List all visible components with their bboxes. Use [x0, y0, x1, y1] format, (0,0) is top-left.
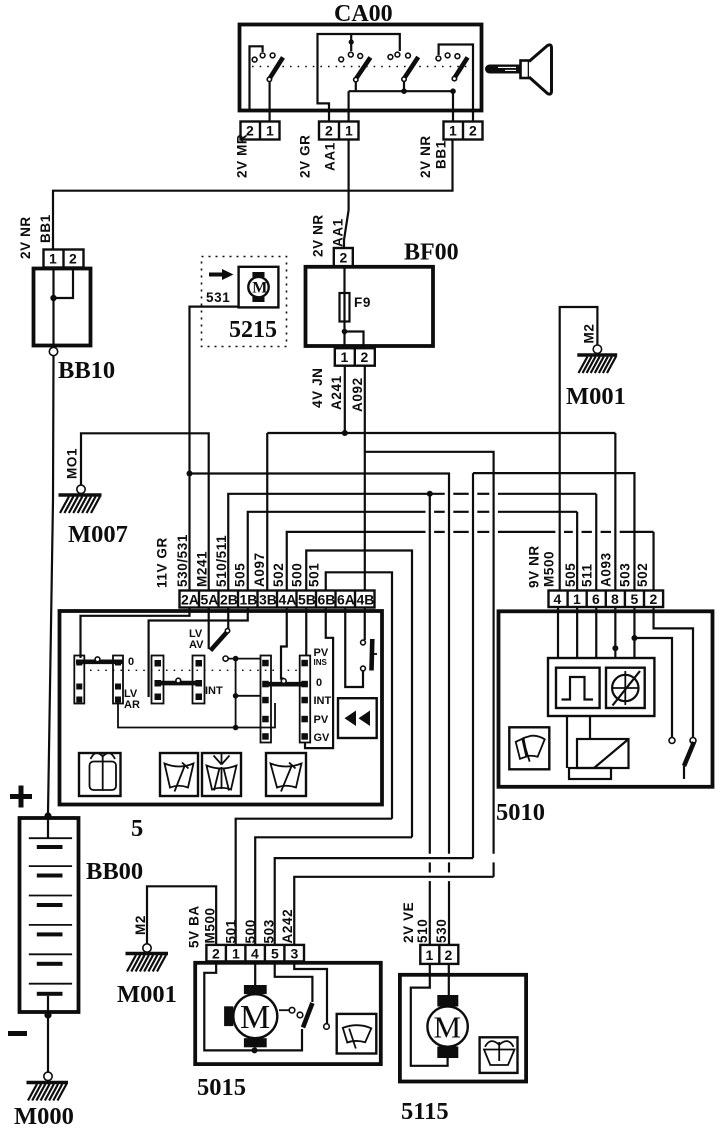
svg-text:531: 531: [206, 290, 230, 305]
connector block A (2|1): [241, 122, 280, 140]
5015 motor symbol: [224, 985, 277, 1050]
motor 5215 symbol: [248, 272, 268, 302]
5010 pin1 wire: [576, 607, 578, 658]
ground M001 (bottom): [126, 944, 169, 972]
BF00 internal wire to pin 2: [345, 332, 364, 349]
box5 wire pin 6B loop around strip: [305, 608, 333, 749]
svg-text:M2: M2: [582, 324, 597, 344]
5015 connector row: [206, 945, 304, 962]
+12V bus A241/A097/A093: [267, 432, 615, 434]
CA00 switch S4 lever: [454, 57, 467, 78]
5015 pin2 ground loop: [204, 961, 302, 1050]
svg-text:A241: A241: [329, 375, 344, 410]
BF00 bottom connector (1|2): [335, 348, 375, 366]
svg-text:M241: M241: [195, 551, 210, 587]
svg-text:A092: A092: [350, 377, 365, 412]
CA00 switch S4 contacts: [436, 56, 441, 61]
wire 500 lower run to 5015 pin 4: [255, 837, 412, 945]
svg-text:M: M: [252, 280, 267, 297]
svg-text:2V VE: 2V VE: [401, 902, 416, 943]
wire 502: [287, 532, 426, 591]
svg-text:BB1: BB1: [38, 214, 53, 243]
battery positive symbol: [10, 786, 32, 808]
svg-text:2: 2: [325, 123, 333, 139]
box5 wire from pin 2A: [81, 608, 190, 659]
svg-text:2: 2: [340, 250, 348, 266]
svg-text:511: 511: [580, 563, 595, 587]
svg-text:501: 501: [307, 563, 322, 587]
svg-text:1: 1: [449, 123, 457, 139]
5010 pulse symbol box: [556, 668, 600, 708]
battery negative symbol: [8, 1031, 27, 1036]
svg-text:M000: M000: [14, 1103, 74, 1130]
svg-text:2V NR: 2V NR: [18, 216, 33, 259]
svg-text:5010: 5010: [496, 799, 545, 826]
wire +12V to box5 pin 4B: [364, 433, 366, 591]
svg-text:503: 503: [262, 919, 277, 943]
5115 pin2 wire to motor top: [448, 964, 450, 995]
svg-text:1: 1: [266, 123, 274, 139]
5010 pin6 wire: [595, 607, 597, 658]
wire 531 from 5215 down: [190, 307, 239, 474]
battery internal bottom lead: [47, 996, 49, 1012]
wiper stalk switch box 5: [60, 611, 383, 805]
svg-text:AA1: AA1: [323, 142, 338, 171]
svg-text:M007: M007: [68, 521, 128, 548]
svg-text:2A: 2A: [181, 592, 199, 608]
wire M500 from ground M001 (bottom) to 5015 pin 2: [147, 886, 216, 945]
svg-text:500: 500: [290, 563, 305, 587]
5015 park switch contacts: [289, 1007, 295, 1013]
wire BB1 from CA00 pin C1 to BB10: [53, 140, 453, 250]
svg-text:5: 5: [131, 815, 143, 842]
box5 bottom return line: [118, 703, 275, 728]
battery BB00 body: [20, 818, 79, 1012]
svg-text:1: 1: [426, 947, 434, 963]
svg-text:1B: 1B: [240, 592, 258, 608]
wire M241 from ground M007 to box5 pin 5A: [81, 433, 209, 590]
CA00 switch S3 tilted contact pair: [388, 55, 393, 60]
box5 left bridge bar position 0: [76, 659, 123, 664]
motor 5215 box: [239, 267, 279, 308]
svg-text:3B: 3B: [259, 592, 277, 608]
svg-text:5: 5: [271, 946, 279, 962]
wire 500 upper run: [306, 551, 412, 838]
CA00 switch S3 lever: [404, 57, 418, 79]
svg-text:BB1: BB1: [434, 140, 449, 169]
ground M007: [59, 485, 102, 513]
svg-text:501: 501: [224, 919, 239, 943]
svg-text:INS: INS: [314, 658, 328, 667]
5015 wiper icon box: [337, 1014, 377, 1054]
svg-text:8: 8: [611, 591, 619, 607]
svg-text:0: 0: [316, 677, 322, 689]
wire 501 lower run to 5015 pin 1: [236, 819, 392, 945]
battery internal top lead: [47, 818, 49, 838]
box5 common distribution line: [228, 656, 260, 731]
svg-text:INT: INT: [205, 685, 223, 697]
ground M000: [27, 1072, 69, 1100]
5015 pin3 wire A242 to park contact: [294, 961, 327, 1023]
svg-text:5A: 5A: [201, 592, 219, 608]
5010 relay symbol: [569, 739, 629, 779]
svg-text:5V BA: 5V BA: [187, 905, 202, 948]
node 510: [427, 491, 433, 497]
5010 switch contacts: [669, 738, 675, 744]
svg-text:4V JN: 4V JN: [310, 367, 325, 408]
CA00 switch S1 lever: [269, 57, 283, 78]
BF00 top connector (2): [334, 248, 353, 266]
5010 module to relay wires: [566, 716, 568, 768]
svg-text:4B: 4B: [357, 592, 375, 608]
wire A097 to box5 pin 3B: [266, 433, 268, 591]
svg-text:M001: M001: [566, 383, 626, 410]
box5 wire pin 2B to lever contact: [227, 608, 229, 629]
svg-text:2: 2: [212, 946, 220, 962]
svg-text:502: 502: [271, 563, 286, 587]
fast speed icon box: [338, 698, 377, 738]
5010 motor control symbol box: [606, 668, 645, 708]
front wiper motor 5015 body: [195, 963, 381, 1064]
5115 motor symbol: [427, 995, 467, 1058]
ignition switch CA00 body: [240, 25, 482, 111]
svg-text:AR: AR: [124, 699, 140, 711]
CA00 switch S4 feed loop from pin C2: [439, 45, 473, 122]
svg-text:2: 2: [69, 251, 77, 267]
box5 wire from pin 1B into middle group: [149, 608, 248, 698]
svg-text:A097: A097: [252, 552, 267, 587]
BB10 internal wire pin1: [52, 268, 54, 347]
svg-text:2: 2: [361, 349, 369, 365]
svg-text:2V NR: 2V NR: [311, 214, 326, 257]
svg-text:M: M: [240, 999, 270, 1036]
LV AV lever: [211, 632, 228, 651]
wire 530 branch to 5115 pin 2: [190, 474, 450, 854]
box5 washer switch bar: [369, 639, 374, 671]
svg-text:GV: GV: [314, 732, 331, 744]
node A241 on bus: [342, 430, 348, 436]
svg-text:2V GR: 2V GR: [298, 134, 313, 178]
CA00 switch S1 contacts: [252, 57, 257, 62]
svg-text:2V MR: 2V MR: [235, 134, 250, 178]
CA00 switch S1 output wire (pin 1): [269, 81, 271, 121]
icon washer windshield: [79, 753, 121, 796]
box5 connector row: [180, 591, 375, 608]
svg-text:4: 4: [554, 591, 562, 607]
svg-text:530/531: 530/531: [175, 534, 190, 587]
box5 washer switch loop from pin 6A: [345, 608, 363, 688]
icon wiper 2: [266, 753, 306, 796]
wire 503 upper run: [473, 473, 634, 590]
CA00 switch S2 feed loop from pin B2: [318, 34, 400, 121]
BB10 connector (1|2): [44, 250, 84, 268]
CA00 switch S1 feed wire (pin 2): [250, 46, 263, 110]
BF00 internal node: [342, 329, 348, 335]
BB10 internal wire pin2: [54, 268, 74, 299]
CA00 switch S4 output wire (pin C1): [452, 91, 454, 121]
svg-text:5215: 5215: [229, 317, 277, 343]
box5 wire pin 4B to washer switch: [364, 608, 366, 641]
CA00 switch S2 lever: [356, 57, 371, 79]
wire 503 lower run to 5015 pin 5: [275, 858, 473, 945]
svg-text:BB00: BB00: [86, 858, 143, 885]
box5 middle bridge bar INT: [157, 681, 200, 686]
svg-text:PV: PV: [314, 714, 329, 726]
wire 530/531 to box5 pin 2A: [188, 474, 190, 591]
fuse F9: [340, 266, 350, 348]
svg-text:2: 2: [469, 123, 477, 139]
5115 washer icon box: [480, 1037, 518, 1073]
svg-text:500: 500: [243, 919, 258, 943]
box5 wire from pin 5A to LV AV lever: [208, 608, 210, 650]
wire 501 upper run: [326, 572, 392, 818]
wire A242 lower run to 5015 pin 3: [294, 877, 493, 945]
5010 wiper icon box: [509, 727, 549, 769]
5010 pin5 wire with node: [633, 607, 635, 658]
connector block B (2|1): [319, 122, 359, 140]
svg-text:6: 6: [592, 591, 600, 607]
wire 505: [248, 512, 426, 591]
5115 connector row: [420, 945, 458, 964]
svg-text:2B: 2B: [220, 592, 238, 608]
svg-text:M2: M2: [133, 915, 148, 935]
svg-text:BF00: BF00: [404, 240, 459, 266]
box5 PV wafer strip: [300, 656, 311, 743]
svg-text:6B: 6B: [318, 592, 336, 608]
5010 electronic module: [548, 658, 654, 716]
5010 pin2 wire to switch: [654, 607, 693, 738]
box5 middle wafer strips: [152, 656, 205, 704]
svg-text:1: 1: [232, 946, 240, 962]
svg-text:1: 1: [345, 123, 353, 139]
svg-text:5015: 5015: [197, 1074, 246, 1101]
CA00 mechanical coupling dotted line: [252, 66, 470, 68]
wire M500 from ground M001: [560, 307, 598, 591]
5015 park switch blade: [303, 1003, 312, 1028]
wire A242 branch: [365, 452, 494, 854]
CA00 switch S2 contacts: [339, 57, 344, 62]
svg-text:5: 5: [631, 591, 639, 607]
box5 coupling dotted line: [90, 669, 300, 671]
wire A092 BF00 pin2 down: [364, 366, 366, 433]
svg-text:F9: F9: [354, 295, 371, 310]
svg-text:M500: M500: [203, 907, 218, 943]
svg-text:M: M: [434, 1010, 462, 1045]
svg-text:AA1: AA1: [331, 218, 346, 247]
svg-text:A242: A242: [280, 909, 295, 944]
svg-text:5115: 5115: [401, 1098, 449, 1125]
svg-text:5B: 5B: [298, 592, 316, 608]
svg-text:503: 503: [618, 563, 633, 587]
box5 right bridge bar 0: [265, 682, 304, 687]
BB10 output terminal: [49, 347, 57, 355]
battery plates: [29, 838, 72, 996]
svg-text:AV: AV: [189, 639, 204, 651]
svg-text:1: 1: [573, 591, 581, 607]
node 530/531: [187, 471, 193, 477]
svg-text:BB10: BB10: [58, 357, 115, 384]
svg-text:2: 2: [650, 591, 658, 607]
svg-text:6A: 6A: [337, 592, 355, 608]
connector block C (1|2): [444, 122, 483, 140]
svg-text:2: 2: [445, 947, 453, 963]
svg-text:510/511: 510/511: [214, 535, 229, 587]
5010 pin4 wire: [557, 607, 559, 658]
wire A241 BF00 pin1 to bus: [344, 366, 346, 433]
5010 switch blade: [684, 742, 694, 766]
CA00 node on feed loop: [349, 39, 354, 44]
5015 pin4 wire to motor: [254, 961, 256, 985]
labels PV INS 0 INT PV GV: [314, 647, 332, 744]
wire 510 drop to 5115 pin 1: [429, 494, 431, 854]
icon wiper: [160, 753, 198, 796]
box5 right wafer strip (group3): [261, 656, 272, 743]
5010 pin8 wire with node: [614, 607, 616, 658]
svg-text:1: 1: [49, 251, 57, 267]
svg-text:MO1: MO1: [65, 448, 80, 479]
intermittent wiper timer 5010 body: [499, 611, 713, 787]
wire BB10 to battery positive: [48, 356, 54, 813]
BB10 internal node: [50, 295, 56, 301]
box5 wire pin 4A to bridge: [281, 608, 287, 679]
svg-text:11V GR: 11V GR: [155, 537, 170, 588]
5010 wire to switch left contact: [634, 638, 672, 738]
arrow symbol (see other diagram): [209, 269, 234, 280]
svg-text:M500: M500: [542, 551, 557, 587]
battery positive node: [44, 812, 51, 819]
svg-text:0: 0: [128, 656, 134, 668]
svg-text:505: 505: [233, 563, 248, 587]
icon wiper with wash: [202, 753, 241, 796]
wire 510/511: [228, 494, 444, 591]
washer pump 5115 body: [400, 975, 526, 1082]
svg-text:510: 510: [415, 919, 430, 943]
svg-text:M001: M001: [117, 981, 177, 1008]
5010 connector row: [549, 591, 664, 608]
BB10 body: [34, 269, 91, 346]
wire 503 vertical drop: [472, 473, 474, 858]
ground M001 (top): [577, 345, 617, 373]
fuse box BF00 body: [306, 267, 434, 346]
box5 left wafer strips: [74, 656, 123, 704]
svg-text:A093: A093: [599, 552, 614, 587]
rear wiper motor 5215 dashed frame: [202, 257, 287, 347]
CA00 switch S2 output wire (pin B1): [355, 81, 357, 91]
5015 pin5 wire to park switch blade: [275, 961, 313, 1002]
key symbol: [485, 45, 552, 94]
svg-text:530: 530: [434, 919, 449, 943]
box5 washer switch contacts: [361, 640, 366, 645]
svg-text:4: 4: [251, 946, 259, 962]
svg-text:2V NR: 2V NR: [418, 135, 433, 178]
box5 common contact circle: [223, 656, 228, 661]
svg-text:3: 3: [291, 946, 299, 962]
svg-text:1: 1: [341, 349, 349, 365]
svg-text:4A: 4A: [279, 592, 297, 608]
5115 pin1 loop to motor bottom: [411, 964, 448, 1066]
box5 wire pin 5B to PV strip: [305, 608, 307, 656]
svg-text:505: 505: [563, 563, 578, 587]
battery negative node: [44, 1011, 51, 1018]
CA00 common bus: [349, 90, 453, 92]
svg-text:502: 502: [635, 563, 650, 587]
5015 motor bottom node: [252, 1047, 258, 1053]
wire battery to M000: [47, 1015, 49, 1072]
CA00 switch S3 output to common bus: [403, 81, 405, 92]
wire A093 to 5010 pin 8: [614, 433, 616, 591]
svg-text:INT: INT: [314, 695, 332, 707]
wire AA1 from CA00 pin B1 to BF00: [344, 140, 349, 249]
svg-text:9V NR: 9V NR: [527, 545, 542, 588]
